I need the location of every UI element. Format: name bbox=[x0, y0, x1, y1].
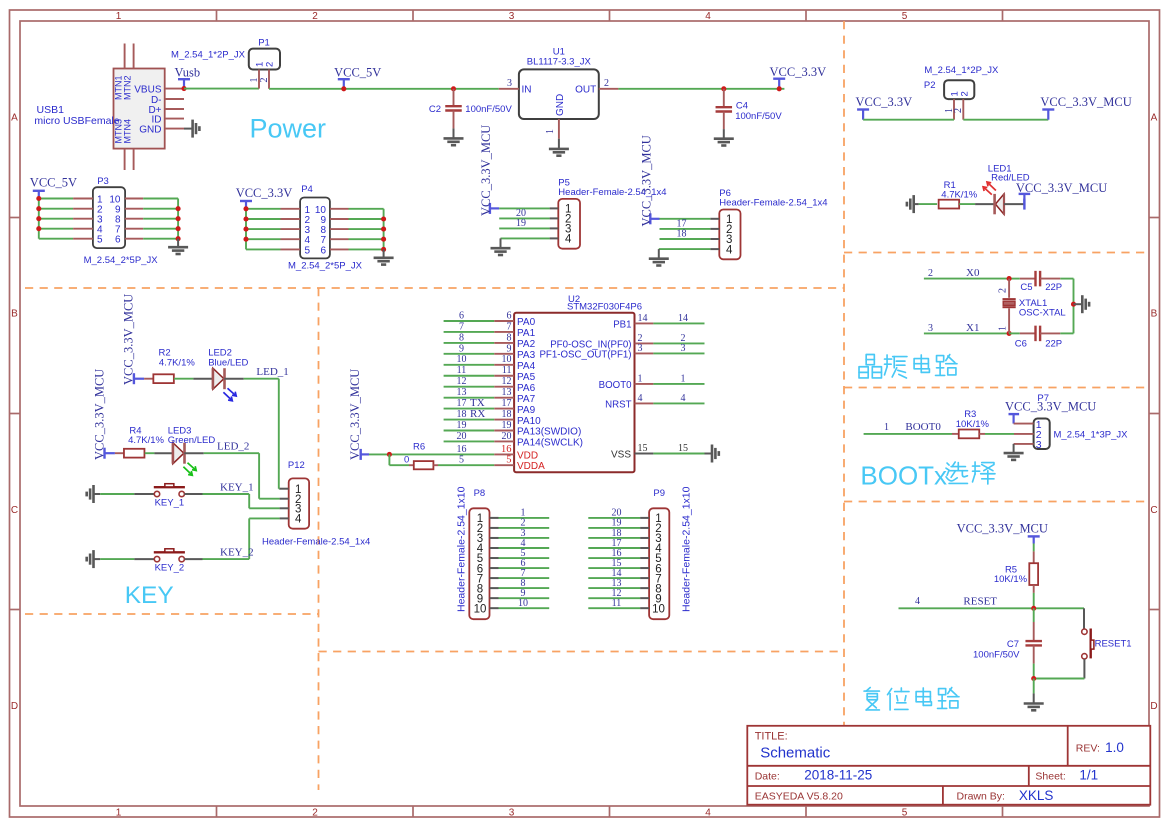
svg-text:2: 2 bbox=[312, 11, 318, 22]
ground at KEY_1 bbox=[92, 485, 95, 503]
svg-text:6: 6 bbox=[320, 245, 326, 256]
wire P6 pin4 to ground bbox=[659, 248, 711, 250]
svg-text:X0: X0 bbox=[966, 267, 980, 279]
svg-text:4.7K/1%: 4.7K/1% bbox=[159, 357, 195, 368]
power flag VCC_3.3V_MCU at P2 bbox=[1042, 108, 1054, 110]
svg-text:10: 10 bbox=[652, 603, 665, 615]
svg-text:1: 1 bbox=[681, 373, 686, 384]
ground at KEY_2 bbox=[92, 550, 95, 568]
svg-text:4: 4 bbox=[565, 234, 572, 246]
svg-text:10: 10 bbox=[474, 603, 487, 615]
U2 pin 16 VDD bbox=[494, 453, 514, 455]
svg-text:TITLE:: TITLE: bbox=[755, 731, 788, 743]
text reset section title (Fu Wei Dian Lu) bbox=[864, 688, 879, 710]
USB1 pin MTN4 bbox=[133, 149, 135, 170]
wire R4 to LED3 bbox=[145, 452, 155, 454]
svg-text:1: 1 bbox=[998, 326, 1009, 331]
power flag VCC_3.3V bbox=[773, 77, 785, 79]
svg-text:22P: 22P bbox=[1045, 339, 1062, 350]
svg-text:7: 7 bbox=[459, 321, 464, 332]
U2 pin 18 PA10 bbox=[444, 419, 495, 421]
wire net 18 at P6 pin3 bbox=[660, 238, 711, 240]
svg-text:15: 15 bbox=[638, 443, 648, 454]
svg-text:KEY_2: KEY_2 bbox=[220, 547, 254, 559]
resistor R2 bbox=[153, 374, 174, 383]
region divider power/bottom bbox=[25, 287, 844, 289]
svg-text:8: 8 bbox=[459, 332, 464, 343]
svg-text:13: 13 bbox=[502, 387, 512, 398]
svg-text:18: 18 bbox=[677, 229, 687, 240]
svg-text:VCC_3.3V_MCU: VCC_3.3V_MCU bbox=[122, 294, 136, 385]
svg-text:4: 4 bbox=[638, 393, 643, 404]
svg-text:2: 2 bbox=[959, 91, 970, 96]
svg-text:MTN2: MTN2 bbox=[123, 76, 133, 101]
P3 left bus junctions bbox=[36, 196, 41, 201]
svg-text:micro USBFemale: micro USBFemale bbox=[34, 115, 119, 127]
U2 pin 12 PA6 bbox=[444, 386, 495, 388]
connector P5 bbox=[558, 199, 580, 249]
svg-text:1: 1 bbox=[116, 11, 122, 22]
svg-text:3: 3 bbox=[507, 78, 512, 89]
svg-text:XKLS: XKLS bbox=[1019, 788, 1054, 803]
svg-text:1: 1 bbox=[638, 373, 643, 384]
svg-text:MTN4: MTN4 bbox=[123, 119, 133, 144]
svg-text:LED_2: LED_2 bbox=[217, 441, 249, 453]
P4 left bus wire bbox=[245, 209, 247, 250]
svg-text:VBUS: VBUS bbox=[134, 84, 162, 95]
svg-text:PA4: PA4 bbox=[517, 361, 536, 372]
svg-text:3: 3 bbox=[681, 343, 686, 354]
ground at P4 bbox=[383, 249, 385, 257]
connector P8 bbox=[469, 508, 489, 619]
connector P12 bbox=[289, 478, 309, 528]
svg-text:P1: P1 bbox=[258, 37, 270, 48]
svg-text:KEY: KEY bbox=[125, 582, 174, 609]
svg-text:Header-Female-2.54_1x4: Header-Female-2.54_1x4 bbox=[719, 198, 827, 209]
svg-text:2: 2 bbox=[312, 808, 318, 819]
svg-text:A: A bbox=[11, 113, 18, 124]
wire KEY_2 to P12 pin4 bbox=[184, 558, 202, 560]
U2 pin 6 PA0 bbox=[444, 320, 495, 322]
svg-text:M_2.54_2*5P_JX: M_2.54_2*5P_JX bbox=[84, 255, 159, 266]
capacitor C7 bbox=[1025, 640, 1042, 642]
wire LED3 to P12 pin2 bbox=[184, 452, 203, 454]
wire Vusb to P1 pin1 bbox=[184, 88, 259, 90]
svg-text:5: 5 bbox=[902, 11, 908, 22]
connector P7 bbox=[1034, 419, 1050, 450]
resistor R5 bbox=[1029, 563, 1038, 585]
wire gnd node down bbox=[1033, 679, 1035, 694]
svg-text:P12: P12 bbox=[288, 460, 305, 471]
wire net 2 X0 bbox=[924, 278, 1009, 280]
region divider boot/reset bbox=[844, 501, 1149, 503]
svg-text:RESET: RESET bbox=[963, 595, 997, 607]
svg-text:RX: RX bbox=[470, 408, 485, 420]
svg-text:USB1: USB1 bbox=[37, 104, 65, 116]
ground at P7 bbox=[1013, 444, 1015, 453]
svg-text:12: 12 bbox=[457, 376, 467, 387]
wire R3 to P7 pin2 bbox=[985, 433, 1014, 435]
svg-text:4: 4 bbox=[726, 244, 733, 256]
svg-text:100nF/50V: 100nF/50V bbox=[465, 104, 512, 115]
power flag VCC_3.3V_MCU at U2 bbox=[360, 449, 362, 460]
svg-text:4: 4 bbox=[681, 393, 686, 404]
MCU U2 STM32F030F4P6 body bbox=[514, 313, 634, 472]
svg-text:16: 16 bbox=[457, 444, 467, 455]
svg-text:Schematic: Schematic bbox=[760, 745, 831, 762]
svg-text:10K/1%: 10K/1% bbox=[956, 419, 990, 430]
svg-text:PA3: PA3 bbox=[517, 350, 536, 361]
svg-text:8: 8 bbox=[507, 332, 512, 343]
region divider led/crystal bbox=[844, 252, 1149, 254]
svg-text:3: 3 bbox=[509, 11, 515, 22]
wire VCC_5V from P1 pin2 to U1 IN bbox=[269, 88, 499, 90]
junction VCC_5V bbox=[341, 86, 346, 91]
svg-text:6: 6 bbox=[115, 235, 121, 246]
U2 pin 14 PB1 bbox=[635, 322, 654, 324]
LED3 emission arrows bbox=[188, 463, 197, 471]
svg-text:VCC_3.3V_MCU: VCC_3.3V_MCU bbox=[1016, 181, 1107, 195]
svg-text:3: 3 bbox=[638, 343, 643, 354]
svg-text:PF1-OSC_OUT(PF1): PF1-OSC_OUT(PF1) bbox=[539, 350, 631, 361]
LED1 emission arrows bbox=[983, 187, 992, 195]
svg-text:1: 1 bbox=[884, 422, 889, 433]
capacitor C2 bbox=[453, 89, 455, 106]
connector P3 bbox=[93, 187, 125, 248]
wire gnd to KEY_2 button bbox=[100, 558, 134, 560]
P3 left pin wires bbox=[39, 198, 73, 200]
wire net 17 at P6 pin2 bbox=[660, 228, 711, 230]
resistor R3 bbox=[952, 433, 959, 435]
svg-text:10K/1%: 10K/1% bbox=[994, 574, 1028, 585]
USB1 pin MTN1 bbox=[124, 44, 126, 69]
ground at reset circuit bbox=[1024, 702, 1044, 705]
wire LED1 to power bbox=[1004, 203, 1024, 205]
wire R1 to LED1 bbox=[959, 203, 975, 205]
svg-text:5: 5 bbox=[459, 455, 464, 466]
wire C6 to right bus bbox=[1060, 332, 1073, 334]
region divider mcu bottom bbox=[319, 651, 845, 653]
svg-text:BOOTx: BOOTx bbox=[860, 460, 947, 490]
U2 pin 11 PA5 bbox=[444, 375, 495, 377]
svg-text:VCC_3.3V: VCC_3.3V bbox=[770, 65, 827, 79]
wire R6 to VDDA bbox=[438, 464, 494, 466]
wire LED2 to P12 pin1 bbox=[224, 378, 243, 380]
ground at C4 bbox=[723, 129, 725, 138]
ground at USB1 GND bbox=[184, 128, 192, 130]
U2 pin 5 VDDA bbox=[494, 464, 514, 466]
power flag VCC_3.3V_MCU at P6 bbox=[649, 213, 651, 224]
connector P4 bbox=[300, 198, 330, 259]
svg-text:M_2.54_1*3P_JX: M_2.54_1*3P_JX bbox=[1054, 430, 1129, 441]
svg-text:9: 9 bbox=[507, 343, 512, 354]
P3 right bus wire bbox=[177, 199, 179, 239]
wire P6 pin1 to power bbox=[660, 218, 711, 220]
P2 pin 2 bbox=[962, 99, 964, 120]
USB1 pin GND bbox=[165, 128, 184, 130]
svg-text:Blue/LED: Blue/LED bbox=[208, 357, 248, 368]
svg-text:VCC_5V: VCC_5V bbox=[30, 176, 77, 190]
diode LED1 bbox=[995, 194, 1004, 214]
connector P2 bbox=[944, 80, 974, 99]
connector P6 bbox=[719, 210, 740, 260]
U2 pin 4 NRST bbox=[635, 402, 654, 404]
svg-text:10: 10 bbox=[502, 354, 512, 365]
svg-text:OUT: OUT bbox=[575, 84, 596, 95]
wire KEY_1 to P12 pin3 bbox=[184, 493, 202, 495]
junction crystal gnd bbox=[1071, 302, 1076, 307]
svg-text:LED_1: LED_1 bbox=[256, 366, 288, 378]
U2 pin 8 PA2 bbox=[444, 342, 495, 344]
svg-text:PA0: PA0 bbox=[517, 317, 536, 328]
P1 pin 2 bbox=[268, 70, 270, 89]
svg-text:VCC_3.3V_MCU: VCC_3.3V_MCU bbox=[640, 135, 654, 226]
svg-text:1: 1 bbox=[116, 808, 122, 819]
svg-text:PA14(SWCLK): PA14(SWCLK) bbox=[517, 438, 583, 449]
power flag VCC_3.3V_MCU at reset bbox=[1028, 535, 1040, 537]
ground at R1 bbox=[912, 195, 915, 213]
svg-text:M_2.54_1*2P_JX: M_2.54_1*2P_JX bbox=[924, 65, 999, 76]
svg-text:Header-Female-2.54_1x10: Header-Female-2.54_1x10 bbox=[456, 486, 468, 612]
svg-text:B: B bbox=[11, 309, 18, 320]
svg-text:P4: P4 bbox=[301, 184, 313, 195]
P7 pin 3 bbox=[1014, 443, 1034, 445]
junction VDD branch bbox=[387, 452, 392, 457]
svg-text:4: 4 bbox=[705, 808, 711, 819]
svg-text:2: 2 bbox=[265, 62, 276, 67]
svg-text:10: 10 bbox=[457, 354, 467, 365]
USB1 pin VBUS bbox=[165, 88, 184, 90]
pushbutton KEY_2 bbox=[154, 556, 159, 561]
svg-text:4: 4 bbox=[915, 596, 920, 607]
svg-text:M_2.54_1*2P_JX: M_2.54_1*2P_JX bbox=[171, 50, 246, 61]
U2 pin 13 PA7 bbox=[444, 397, 495, 399]
svg-text:20: 20 bbox=[457, 431, 467, 442]
U1 pin 3 IN bbox=[499, 88, 519, 90]
svg-text:5: 5 bbox=[97, 235, 103, 246]
svg-text:BOOT0: BOOT0 bbox=[599, 380, 632, 391]
svg-text:16: 16 bbox=[501, 444, 512, 455]
svg-text:4: 4 bbox=[295, 514, 302, 526]
svg-text:19: 19 bbox=[502, 420, 512, 431]
svg-text:18: 18 bbox=[502, 409, 512, 420]
U2 pin 19 PA13(SWDIO) bbox=[444, 430, 495, 432]
connector P1 bbox=[249, 49, 280, 70]
svg-text:C6: C6 bbox=[1015, 339, 1027, 350]
wire U1 OUT to VCC_3.3V bbox=[618, 88, 784, 90]
svg-text:RESET1: RESET1 bbox=[1095, 639, 1132, 650]
svg-text:9: 9 bbox=[459, 343, 464, 354]
svg-text:PA5: PA5 bbox=[517, 372, 536, 383]
region divider key/mcu vertical bbox=[318, 288, 320, 790]
junction C4 bbox=[721, 86, 726, 91]
svg-text:IN: IN bbox=[522, 84, 532, 95]
svg-text:VSS: VSS bbox=[611, 450, 631, 461]
svg-text:KEY_2: KEY_2 bbox=[155, 563, 185, 574]
svg-text:1/1: 1/1 bbox=[1079, 768, 1098, 783]
wire VDDA branch down bbox=[388, 454, 390, 465]
svg-text:5: 5 bbox=[506, 455, 511, 466]
P1 pin 1 bbox=[258, 70, 260, 89]
svg-text:2: 2 bbox=[953, 108, 964, 113]
power flag VCC_3.3V at P2 bbox=[857, 108, 869, 110]
svg-text:3: 3 bbox=[1036, 439, 1042, 451]
region divider crystal/boot bbox=[844, 387, 1149, 389]
svg-text:PA13(SWDIO): PA13(SWDIO) bbox=[517, 427, 581, 438]
svg-text:PA7: PA7 bbox=[517, 394, 536, 405]
U1 pin 2 OUT bbox=[599, 88, 619, 90]
power flag VCC_3.3V_MCU at LED1 bbox=[1023, 199, 1025, 210]
P3 right pin wires bbox=[125, 198, 143, 200]
USB1 pin MTN2 bbox=[133, 44, 135, 69]
ground at P3 bbox=[177, 239, 179, 247]
junction X1 crystal bbox=[1007, 331, 1012, 336]
wire net 1 BOOT0 bbox=[864, 433, 952, 435]
svg-text:100nF/50V: 100nF/50V bbox=[973, 649, 1020, 660]
P2 pin 1 bbox=[953, 99, 955, 120]
wire R5 to RESET node bbox=[1033, 585, 1035, 593]
wire R2 to LED2 bbox=[174, 378, 194, 380]
ground at U1 GND bbox=[558, 139, 560, 149]
svg-text:VCC_3.3V_MCU: VCC_3.3V_MCU bbox=[1040, 95, 1131, 109]
junction Vusb bbox=[181, 86, 186, 91]
wire P2 pin2 to VCC_3.3V_MCU bbox=[963, 119, 1048, 121]
P4 right pin wires bbox=[330, 208, 349, 210]
junction RESET bbox=[1031, 606, 1036, 611]
svg-text:D: D bbox=[11, 701, 18, 712]
svg-text:P2: P2 bbox=[924, 80, 936, 91]
wire P5 pin1 to power bbox=[499, 207, 549, 209]
svg-text:C5: C5 bbox=[1020, 282, 1032, 293]
power flag VCC_5V at P3 bbox=[33, 190, 45, 192]
svg-text:R6: R6 bbox=[413, 441, 425, 452]
svg-text:100nF/50V: 100nF/50V bbox=[735, 111, 782, 122]
USB1 pin MTN3 bbox=[124, 149, 126, 170]
wire net 4 RESET bbox=[899, 607, 1085, 609]
svg-text:Green/LED: Green/LED bbox=[168, 435, 216, 446]
P4 left bus junctions bbox=[243, 206, 248, 211]
svg-text:12: 12 bbox=[502, 376, 512, 387]
svg-text:Header-Female-2.54_1x10: Header-Female-2.54_1x10 bbox=[681, 486, 693, 612]
svg-text:OSC-XTAL: OSC-XTAL bbox=[1019, 308, 1066, 319]
svg-text:18: 18 bbox=[457, 409, 467, 420]
U2 pin 10 PA4 bbox=[444, 364, 495, 366]
svg-text:D: D bbox=[1150, 701, 1157, 712]
svg-text:Power: Power bbox=[250, 114, 327, 144]
svg-text:STM32F030F4P6: STM32F030F4P6 bbox=[567, 302, 642, 313]
wire gnd to KEY_1 button bbox=[100, 493, 134, 495]
LED2 emission arrows bbox=[228, 388, 237, 396]
svg-text:VDDA: VDDA bbox=[517, 461, 545, 472]
svg-text:14: 14 bbox=[678, 313, 688, 324]
P3 left bus wire bbox=[38, 199, 40, 239]
wire power to R2 bbox=[144, 378, 153, 380]
svg-text:M_2.54_2*5P_JX: M_2.54_2*5P_JX bbox=[288, 260, 363, 271]
ground at C2 bbox=[453, 128, 455, 138]
U2 pin 2 PF0-OSC_IN(PF0) bbox=[635, 342, 654, 344]
svg-text:6: 6 bbox=[459, 310, 464, 321]
svg-text:VCC_3.3V_MCU: VCC_3.3V_MCU bbox=[1005, 400, 1096, 414]
region divider right column vertical bbox=[843, 21, 845, 726]
wire gnd to R1 bbox=[919, 203, 937, 205]
title block frame bbox=[747, 726, 1150, 805]
diode LED2 bbox=[213, 368, 224, 389]
svg-text:VCC_3.3V: VCC_3.3V bbox=[856, 95, 913, 109]
svg-text:7: 7 bbox=[507, 321, 512, 332]
svg-text:1.0: 1.0 bbox=[1105, 740, 1124, 755]
svg-text:VCC_3.3V_MCU: VCC_3.3V_MCU bbox=[479, 125, 493, 216]
junction X0 crystal bbox=[1007, 276, 1012, 281]
ground at VSS bbox=[705, 453, 712, 455]
svg-text:EASYEDA V5.8.20: EASYEDA V5.8.20 bbox=[755, 791, 843, 803]
wire X1 to C6 bbox=[1009, 332, 1020, 334]
svg-text:2018-11-25: 2018-11-25 bbox=[804, 768, 872, 783]
svg-text:10: 10 bbox=[518, 598, 528, 609]
svg-text:B: B bbox=[1151, 309, 1158, 320]
svg-text:0: 0 bbox=[404, 454, 409, 465]
svg-text:13: 13 bbox=[457, 387, 467, 398]
svg-text:GND: GND bbox=[555, 94, 566, 116]
U2 pin 7 PA1 bbox=[444, 331, 495, 333]
junction VCC_3.3V bbox=[777, 86, 782, 91]
U2 pin 3 PF1-OSC_OUT(PF1) bbox=[635, 352, 654, 354]
svg-text:KEY_1: KEY_1 bbox=[155, 497, 185, 508]
svg-text:BOOT0: BOOT0 bbox=[905, 421, 941, 433]
svg-text:P8: P8 bbox=[474, 488, 486, 499]
pushbutton KEY_1 bbox=[154, 491, 159, 496]
svg-text:PA9: PA9 bbox=[517, 405, 536, 416]
svg-text:VCC_3.3V_MCU: VCC_3.3V_MCU bbox=[957, 521, 1048, 535]
svg-text:VDD: VDD bbox=[517, 450, 538, 461]
wire power to VDD bbox=[369, 453, 494, 455]
svg-text:17: 17 bbox=[457, 398, 467, 409]
USB1 pin ID bbox=[165, 118, 184, 120]
ground at P6 bbox=[649, 257, 669, 260]
wire C7 to gnd node bbox=[1033, 664, 1035, 679]
U2 pin 1 BOOT0 bbox=[635, 383, 654, 385]
U1 pin 1 GND bbox=[558, 119, 560, 139]
svg-text:6: 6 bbox=[507, 310, 512, 321]
U2 pin 17 PA9 bbox=[444, 408, 495, 410]
svg-text:22P: 22P bbox=[1045, 282, 1062, 293]
wire RESET node down to C7 bbox=[1033, 608, 1035, 622]
power flag VCC_3.3V at P4 bbox=[240, 200, 252, 202]
text crystal section title (Jing Zhen Dian Lu) bbox=[859, 355, 881, 378]
svg-text:P3: P3 bbox=[97, 176, 109, 187]
svg-text:VCC_3.3V_MCU: VCC_3.3V_MCU bbox=[348, 369, 362, 460]
pushbutton RESET1 bbox=[1082, 629, 1087, 634]
svg-text:5: 5 bbox=[902, 808, 908, 819]
crystal right bus wire bbox=[1073, 279, 1075, 334]
svg-text:19: 19 bbox=[516, 218, 526, 229]
power flag VCC_5V bbox=[338, 78, 350, 80]
svg-text:VCC_3.3V_MCU: VCC_3.3V_MCU bbox=[93, 369, 107, 460]
svg-text:X1: X1 bbox=[966, 322, 979, 334]
svg-text:C: C bbox=[11, 505, 18, 516]
svg-text:A: A bbox=[1151, 113, 1158, 124]
svg-text:PA1: PA1 bbox=[517, 328, 536, 339]
svg-text:15: 15 bbox=[678, 443, 688, 454]
wire power to R5 bbox=[1033, 544, 1035, 552]
wire net 3 X1 bbox=[924, 332, 1009, 334]
wire C5 to right bus bbox=[1060, 278, 1073, 280]
svg-text:VCC_3.3V: VCC_3.3V bbox=[236, 186, 293, 200]
wire net 19 at P5 pin3 bbox=[499, 227, 549, 229]
svg-text:NRST: NRST bbox=[605, 400, 631, 411]
svg-text:20: 20 bbox=[502, 431, 512, 442]
svg-text:4.7K/1%: 4.7K/1% bbox=[128, 435, 164, 446]
svg-text:REV:: REV: bbox=[1076, 743, 1100, 755]
